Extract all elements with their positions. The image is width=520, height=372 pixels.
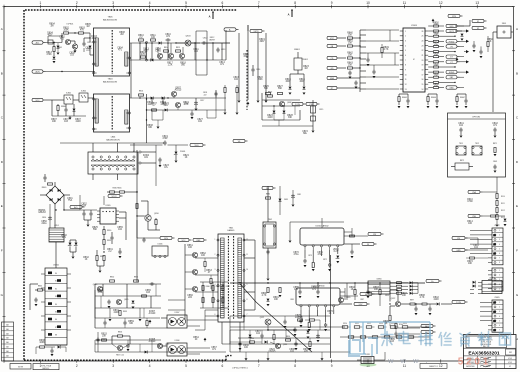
zener ZD810: [336, 256, 340, 264]
svg-text:R923: R923: [379, 323, 383, 325]
transistor Q812: [185, 269, 198, 274]
wire rc pair 1: [428, 94, 437, 105]
ground rv1: [289, 93, 292, 95]
wire row2 drops: [152, 98, 196, 108]
wire opto links: [52, 98, 94, 100]
labels opto area: [51, 119, 81, 123]
svg-text:84: 84: [55, 304, 57, 306]
svg-text:V2: V2: [477, 28, 479, 30]
svg-text:1.2K: 1.2K: [168, 65, 173, 67]
ground row2: [195, 109, 198, 111]
net flag PFC pair: [292, 102, 320, 106]
svg-text:CN806: CN806: [376, 279, 381, 281]
wire Q801-Q802: [71, 41, 76, 44]
wire q row: [160, 59, 182, 60]
wire rc pair 2: [457, 94, 466, 105]
svg-text:2M: 2M: [120, 34, 123, 36]
svg-text:GND: GND: [449, 88, 454, 90]
wire sec col: [268, 186, 280, 278]
net flag VOUT B: [472, 26, 487, 30]
svg-text:85: 85: [55, 312, 57, 314]
wire c815: [312, 128, 314, 130]
svg-text:BALS1B161ON: BALS1B161ON: [103, 81, 117, 84]
zone tick marks top: [4, 5, 477, 9]
wire vertical sec2: [346, 283, 348, 300]
capacitor C880: [266, 250, 269, 259]
svg-text:10K: 10K: [274, 299, 279, 301]
optocoupler IC801: [64, 93, 73, 105]
connector pin fills CN802: [493, 234, 496, 255]
net flag ACL: [32, 41, 46, 45]
net flag B+ secondary: [426, 279, 442, 283]
capacitor C863: [103, 318, 106, 328]
svg-text:1M: 1M: [50, 26, 53, 28]
svg-text:4007: 4007: [285, 81, 291, 83]
option capacitor C843: [493, 161, 497, 173]
net flag ACN: [32, 70, 46, 74]
svg-text:10K: 10K: [348, 43, 353, 45]
svg-text:T806: T806: [108, 17, 114, 19]
svg-text:R930: R930: [250, 338, 254, 340]
labels top startup2: [285, 66, 309, 83]
svg-text:6: 6: [405, 55, 406, 57]
option resistor R872: [451, 160, 473, 170]
resistor R890: [267, 283, 269, 298]
junction dots misc: [55, 191, 390, 330]
svg-text:GBU8J: GBU8J: [38, 212, 45, 214]
diode D820: [461, 31, 464, 41]
svg-text:8: 8: [405, 65, 406, 67]
wire rv branches: [290, 74, 304, 86]
svg-text:1K: 1K: [489, 41, 492, 43]
capacitor C817: [194, 100, 204, 106]
svg-text:A3120: A3120: [149, 312, 156, 315]
svg-text:OUT1: OUT1: [449, 31, 454, 33]
labels bl: [116, 355, 124, 357]
svg-text:3: 3: [215, 269, 216, 271]
svg-text:5: 5: [185, 364, 187, 368]
wire rn to ic: [346, 38, 360, 88]
zener ZD801: [174, 151, 186, 155]
capacitor C850: [42, 216, 52, 221]
wire r830 chain: [104, 226, 112, 250]
svg-text:FB801: FB801: [294, 49, 300, 51]
resistor R803: [79, 28, 86, 35]
capacitor C890: [283, 316, 286, 328]
transistor Q816: [93, 284, 103, 292]
svg-text:12: 12: [439, 364, 443, 368]
resistor R802: [63, 28, 69, 35]
wire to T806: [90, 49, 94, 55]
svg-text:47K: 47K: [141, 54, 146, 56]
capacitor C887: [366, 283, 369, 298]
title block: [464, 335, 517, 369]
wire bl bus: [95, 343, 161, 345]
wire pfc top: [262, 93, 300, 120]
svg-text:5: 5: [405, 50, 406, 52]
svg-text:2: 2: [215, 254, 216, 256]
resistor chain1: [483, 190, 499, 224]
svg-text:IC805: IC805: [105, 205, 110, 207]
svg-text:VDD: VDD: [450, 26, 455, 28]
svg-text:A: A: [288, 13, 290, 17]
resistor R814: [164, 47, 169, 52]
svg-text:10K: 10K: [468, 263, 473, 265]
svg-text:19: 19: [421, 65, 423, 67]
junction dots bus: [239, 282, 368, 344]
svg-text:6: 6: [215, 314, 216, 316]
svg-text:82: 82: [55, 288, 57, 290]
svg-text:21: 21: [421, 55, 423, 57]
regulator IC804: [133, 150, 148, 165]
resistor row bottom B: [348, 336, 414, 338]
svg-text:10: 10: [405, 74, 407, 76]
svg-text:5V-S: 5V-S: [194, 145, 199, 147]
transformer T804 label: [103, 79, 117, 84]
labels T801 pins: [215, 239, 248, 316]
wire under optos: [52, 100, 86, 116]
svg-text:47K: 47K: [80, 30, 85, 32]
wire bridge io: [40, 182, 70, 228]
diode D818: [162, 97, 165, 100]
svg-text:4148: 4148: [433, 299, 439, 301]
resistor R893: [379, 283, 381, 306]
wire stb mesh: [148, 145, 176, 163]
ground mesh: [109, 319, 142, 321]
ground bottom mid: [245, 358, 324, 360]
wire ic810 pins: [305, 236, 368, 262]
diode D801: [53, 57, 56, 60]
resistor R871b: [350, 235, 355, 237]
svg-text:5 2 0 1: 5 2 0 1: [458, 357, 489, 368]
svg-text:R872: R872: [323, 259, 327, 261]
svg-text:R832: R832: [100, 256, 104, 258]
inductor L804 label: [106, 137, 120, 142]
wire right verticals mid: [196, 31, 207, 75]
svg-text:C1815: C1815: [269, 351, 276, 353]
resistor R865: [398, 97, 407, 102]
labels chain1: [501, 196, 505, 219]
diode D847: [145, 351, 148, 354]
svg-text:10K: 10K: [402, 295, 407, 297]
diode D822: [283, 106, 286, 120]
svg-text:81: 81: [55, 281, 57, 283]
svg-text:C903: C903: [102, 339, 106, 341]
svg-text:C945: C945: [155, 51, 161, 53]
svg-text:C851: C851: [54, 225, 59, 227]
resistor grid above T801: [200, 282, 230, 308]
IC IC805: [97, 205, 119, 224]
isolation boundary left: [23, 10, 25, 361]
reference marker A2: [288, 10, 293, 17]
wire ic811 pins: [301, 296, 358, 322]
resistor R849: [381, 44, 390, 58]
svg-text:IC801: IC801: [66, 93, 71, 95]
svg-text:4148: 4148: [267, 117, 273, 119]
capacitor C810: [165, 34, 171, 42]
wire b+ drop: [136, 150, 138, 282]
svg-text:1: 1: [405, 31, 406, 33]
svg-text:R922: R922: [367, 323, 371, 325]
wire option box link: [496, 177, 498, 190]
svg-text:C815: C815: [319, 109, 323, 111]
transformer T802 (drive): [263, 219, 276, 248]
svg-text:R857 0.22: R857 0.22: [116, 355, 124, 357]
resistor network RN801: [347, 33, 353, 70]
resistor R816: [139, 91, 144, 97]
wire vert feeders: [224, 25, 267, 115]
svg-text:87: 87: [55, 327, 57, 329]
svg-text:4: 4: [405, 45, 406, 47]
svg-text:EAS60D: EAS60D: [228, 229, 236, 232]
svg-text:R831: R831: [107, 240, 111, 242]
svg-text:B: B: [1, 71, 3, 75]
ground lower: [99, 271, 102, 273]
resistor R810: [138, 35, 144, 41]
resistor R899: [389, 316, 391, 327]
wire c816: [252, 65, 254, 76]
wire diagonal route 2: [240, 284, 256, 302]
capacitor C812: [202, 38, 208, 45]
resistor R892: [354, 283, 356, 300]
capacitor C854: [110, 236, 113, 241]
resistor R880: [266, 194, 271, 200]
wire rc pair 0: [399, 94, 408, 105]
transformer T804: [93, 94, 131, 132]
wire t801 right: [244, 240, 255, 310]
svg-text:11: 11: [246, 254, 248, 256]
svg-text:BAL2KB135ON: BAL2KB135ON: [106, 139, 120, 142]
zone numbers bottom: [40, 364, 443, 368]
svg-text:1N4937: 1N4937: [209, 39, 215, 41]
svg-text:C812: C812: [203, 38, 208, 40]
svg-text:17: 17: [421, 74, 423, 76]
svg-text:6.2V: 6.2V: [334, 251, 339, 253]
wire bottom mid verticals: [244, 316, 322, 358]
component IC806: [152, 244, 168, 258]
wire bottom-left bus: [95, 340, 226, 352]
svg-text:80: 80: [55, 273, 57, 275]
wire fb left: [390, 290, 398, 315]
capacitor C864: [123, 318, 126, 328]
svg-text:T811: T811: [459, 143, 463, 145]
svg-text:R815: R815: [176, 47, 180, 49]
svg-text:GND: GND: [456, 250, 461, 252]
wire sec col2: [292, 190, 295, 207]
svg-text:1K: 1K: [385, 323, 388, 325]
doc box 1: [10, 364, 31, 370]
svg-text:R871: R871: [493, 143, 497, 145]
capacitor C875: [299, 319, 302, 328]
svg-text:R872: R872: [460, 160, 464, 162]
svg-text:4.7K: 4.7K: [384, 49, 389, 51]
svg-text:1: 1: [40, 1, 42, 5]
svg-text:R835: R835: [38, 286, 42, 288]
wire r840: [107, 191, 138, 192]
resistor R870: [312, 263, 315, 272]
svg-text:LGP32-07 REV1.0: LGP32-07 REV1.0: [232, 367, 248, 369]
wire ic811 net: [340, 288, 345, 300]
svg-text:4937: 4937: [163, 105, 169, 107]
svg-text:56K: 56K: [278, 88, 283, 90]
svg-text:OPTION: OPTION: [472, 117, 480, 119]
arrow feeds: [432, 19, 459, 62]
resistor R831: [103, 240, 111, 245]
resistor R891: [279, 283, 282, 297]
svg-text:1K: 1K: [351, 289, 354, 291]
resistor R851: [134, 277, 139, 283]
wire conn feed2: [466, 238, 489, 250]
ground c815: [312, 131, 315, 133]
connector CN801 stack: [41, 265, 71, 346]
svg-text:11: 11: [403, 1, 407, 5]
resistor R936: [39, 340, 45, 348]
zone numbers top: [40, 1, 480, 5]
svg-text:CN802: CN802: [494, 225, 499, 227]
isolation boundary bottom: [24, 356, 232, 361]
wire T801 bottom taps: [195, 310, 218, 330]
svg-text:BALS1B161ON: BALS1B161ON: [103, 19, 117, 22]
wire r835: [35, 289, 45, 291]
diode D830: [132, 301, 135, 309]
capacitor C903: [96, 338, 105, 343]
svg-text:5.6K: 5.6K: [98, 292, 103, 294]
diode D806: [73, 109, 76, 112]
label 1N4937: [209, 37, 215, 41]
net flag VSTR: [248, 25, 265, 33]
ground Q802: [74, 51, 77, 53]
svg-text:ACL: ACL: [36, 42, 40, 45]
connector CN801 pin fills: [48, 272, 61, 336]
svg-text:25: 25: [421, 36, 423, 38]
svg-text:07.03: 07.03: [508, 358, 512, 360]
labels misc t806: [85, 32, 125, 52]
wire right edge drop: [492, 32, 494, 112]
wire primary bus lower: [130, 59, 226, 61]
wire left bot: [30, 284, 38, 310]
svg-text:13: 13: [405, 89, 407, 91]
wire diagonal route: [256, 302, 312, 352]
capacitor C819: [162, 136, 168, 146]
svg-text:Q822: Q822: [391, 298, 395, 300]
svg-text:R921: R921: [355, 323, 359, 325]
reference marker A1: [209, 12, 214, 19]
watermark 5201 text: [458, 357, 489, 368]
capacitor C801: [82, 42, 91, 47]
ground rv2: [303, 93, 306, 95]
svg-text:4007: 4007: [91, 38, 97, 40]
svg-text:33K: 33K: [288, 117, 293, 119]
wire L804 feeds: [60, 143, 164, 180]
net flag PFCVCC: [104, 194, 123, 205]
ground rc 0: [398, 106, 410, 108]
svg-text:T802: T802: [268, 219, 272, 221]
svg-text:7: 7: [258, 1, 260, 5]
wire top right mesh: [455, 20, 488, 52]
resistor R897: [410, 300, 415, 306]
svg-text:R912: R912: [501, 210, 505, 212]
bottom tiny text: [232, 367, 248, 369]
bottom doc box: [420, 364, 447, 369]
svg-text:C843: C843: [493, 161, 497, 163]
svg-text:222: 222: [204, 94, 207, 96]
net flag 12V: [368, 232, 384, 236]
labels startup: [49, 24, 97, 41]
wire VCC stub: [46, 99, 53, 101]
svg-text:R910: R910: [501, 196, 505, 198]
svg-text:6: 6: [222, 364, 224, 368]
resistor R867: [456, 97, 465, 102]
svg-text:Q808: Q808: [287, 102, 291, 104]
capacitor C821: [354, 81, 357, 89]
capacitor C895: [394, 329, 397, 337]
diode D824: [163, 103, 169, 112]
IC IC811 (regulator): [296, 285, 340, 311]
wire bottom bus1: [230, 326, 345, 328]
wire R802: [62, 33, 75, 43]
labels left mesh: [97, 290, 151, 325]
svg-text:7: 7: [247, 314, 248, 316]
capacitor C901: [126, 340, 129, 351]
svg-text:3: 3: [405, 40, 406, 42]
transistor Q805: [168, 53, 173, 58]
transistor Q825: [157, 343, 169, 348]
resistor R811: [150, 35, 156, 41]
highlight trace blue loop: [349, 322, 430, 356]
resistor R815: [176, 47, 181, 52]
net flag row right of IC803: [444, 24, 464, 89]
wire fb run: [401, 303, 452, 305]
capacitor C894: [428, 304, 431, 315]
svg-text:C887: C887: [360, 299, 364, 301]
labels row2: [147, 88, 189, 107]
ground ic810 left: [289, 241, 292, 243]
labels pfc corner: [267, 115, 308, 135]
svg-text:GND: GND: [330, 78, 335, 80]
svg-text:12: 12: [246, 239, 248, 241]
resistor R852: [142, 295, 147, 297]
svg-text:0.5W: 0.5W: [467, 201, 473, 203]
line filter L804: [88, 152, 138, 174]
big cap C851 (hatched): [49, 225, 64, 242]
svg-text:1/1: 1/1: [509, 366, 511, 368]
svg-text:VCC: VCC: [182, 240, 187, 242]
resistor R933: [101, 334, 107, 342]
svg-text:1: 1: [215, 239, 216, 241]
svg-text:EAX36563201: EAX36563201: [468, 350, 500, 356]
svg-text:7: 7: [405, 60, 406, 62]
labels drv area: [187, 245, 212, 299]
svg-text:3: 3: [112, 364, 114, 368]
diode D816: [303, 87, 306, 90]
labels pfc area: [61, 204, 123, 262]
wire horizontal y315: [230, 315, 330, 317]
net flag chain1: [468, 190, 483, 194]
resistor R932: [273, 330, 275, 344]
svg-text:18: 18: [421, 69, 423, 71]
svg-text:CN801: CN801: [53, 265, 59, 267]
ground rc 2: [456, 106, 468, 108]
resistor R931: [309, 338, 312, 350]
resistor R915: [466, 257, 488, 259]
wire pfc corner mesh: [262, 105, 313, 126]
svg-text:VCC: VCC: [330, 38, 335, 40]
svg-text:10: 10: [246, 269, 248, 271]
label startup: [67, 24, 75, 26]
net flag conn2: [452, 248, 468, 252]
svg-text:IC803: IC803: [411, 25, 417, 27]
capacitor C809: [43, 174, 46, 182]
